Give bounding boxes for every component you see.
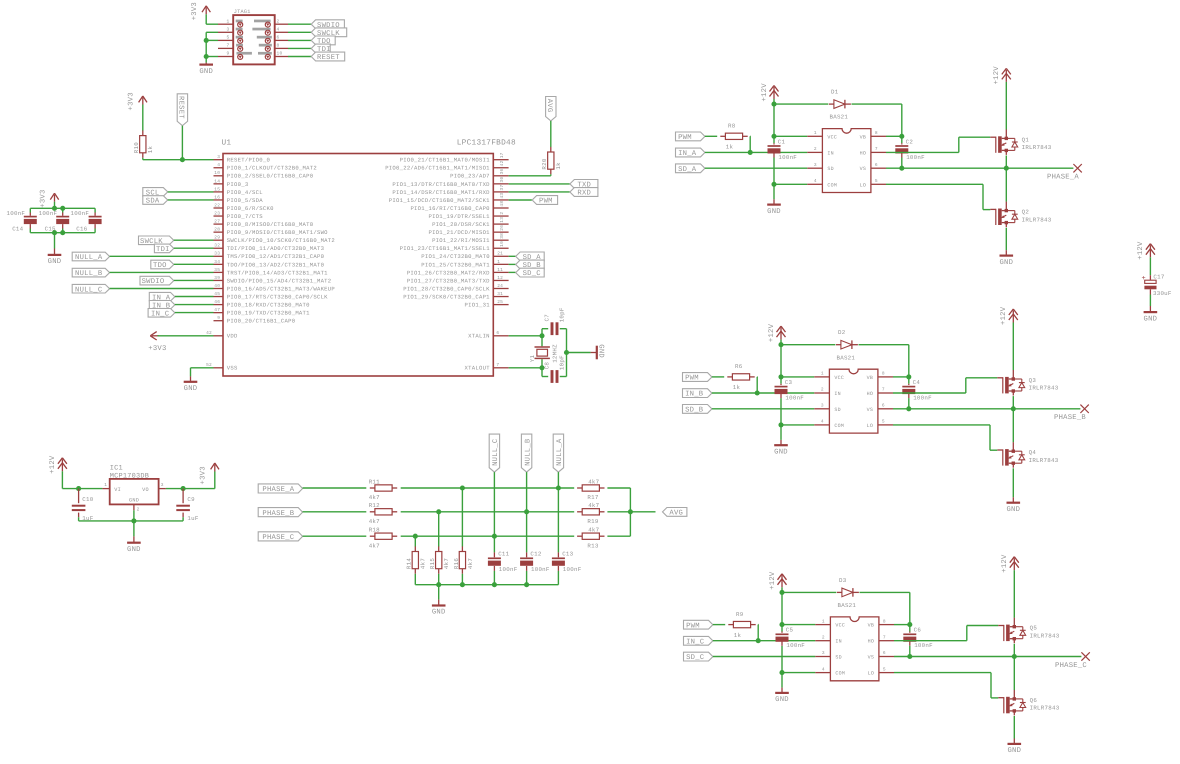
wire C10 bottom (78, 517, 80, 521)
IC1 pin3 stub (159, 488, 166, 490)
wire JTAG flag (288, 39, 311, 41)
wire SD_A (U1) (509, 255, 516, 257)
svg-text:100nF: 100nF (71, 210, 90, 217)
junction VB (906, 374, 911, 379)
wire VB pin (886, 135, 902, 137)
svg-text:PIO1_31: PIO1_31 (465, 302, 491, 309)
wire NULL_B (110, 271, 214, 273)
wire VCC pin (782, 624, 815, 626)
wire R14 top (414, 536, 416, 546)
svg-text:33: 33 (214, 251, 220, 257)
wire JTAG flag (288, 23, 311, 25)
U1 pin stubs (214, 160, 509, 368)
svg-text:IN_C: IN_C (686, 638, 705, 646)
wire R16 top (461, 488, 463, 547)
IC1 pin1 stub (102, 488, 109, 490)
svg-text:PIO1_14/DSR/CT16B0_MAT1/RXD: PIO1_14/DSR/CT16B0_MAT1/RXD (392, 189, 490, 196)
wire VCC vertical (780, 345, 782, 384)
net flag AVG (U1) (545, 97, 556, 121)
net flag IN_B (U1) (149, 301, 175, 311)
junction gnd rail (network) (436, 582, 441, 587)
svg-text:PIO0_5/SDA: PIO0_5/SDA (227, 197, 263, 204)
svg-text:SD_C: SD_C (523, 270, 542, 278)
svg-text:C4: C4 (913, 379, 921, 386)
svg-text:7: 7 (875, 147, 878, 152)
wire SDA (168, 199, 214, 201)
svg-text:46: 46 (214, 299, 220, 305)
svg-text:3: 3 (821, 403, 824, 409)
resistor R19 4k7 (577, 502, 604, 525)
svg-text:GND: GND (127, 546, 141, 554)
svg-text:GND: GND (48, 258, 62, 266)
resistor R8 1k (720, 123, 747, 151)
wire PHASE_A to R11 (303, 487, 367, 489)
wire +12V to C17 (1149, 257, 1151, 275)
wire C8 row (542, 376, 567, 378)
svg-text:R8: R8 (728, 123, 736, 130)
svg-text:D2: D2 (838, 329, 846, 336)
ground (driver PHASE_C) (775, 693, 789, 704)
wire C15 top lead (62, 208, 64, 212)
diode D1 BAS21 (829, 89, 851, 121)
transistor Q5 IRLR7843 (998, 618, 1059, 644)
wire +12V to Q1 drain (1013, 570, 1015, 618)
svg-text:4k7: 4k7 (443, 558, 450, 569)
svg-text:PHASE_B: PHASE_B (262, 510, 294, 518)
capacitor C4 lead (908, 384, 910, 385)
wire C16 top lead (94, 208, 96, 212)
svg-text:+3V3: +3V3 (200, 466, 208, 484)
svg-text:1: 1 (104, 483, 107, 488)
net end marker PHASE_A (1073, 164, 1081, 172)
wire SD_A (705, 167, 807, 169)
junction VB (899, 134, 904, 139)
svg-text:NULL_B: NULL_B (524, 438, 532, 466)
net flag NULL_A (U1) (72, 252, 109, 262)
wire AVG to R20 (550, 121, 552, 147)
wire crystal left vertical (541, 329, 543, 377)
gate driver IC (driver PHASE_C) (830, 617, 879, 681)
svg-text:C11: C11 (498, 551, 509, 558)
net flag IN_C (U1) (148, 309, 175, 319)
JTAG1 pin pads (236, 20, 272, 60)
svg-text:SD_A: SD_A (678, 166, 697, 174)
wire PHASE_B to R12 (303, 511, 367, 513)
wire JTAG flag (288, 31, 311, 33)
wire LO to gate (894, 673, 998, 698)
resistor R20 1k (541, 147, 562, 174)
wire R20 to AD7 pin (509, 174, 551, 176)
driver IC pin stubs (814, 377, 893, 425)
svg-text:LPC1317FBD48: LPC1317FBD48 (457, 139, 516, 148)
wire IN_A (705, 151, 807, 153)
wire NULL_B vertical (526, 472, 528, 552)
svg-text:43: 43 (499, 193, 505, 199)
svg-text:VS: VS (867, 407, 874, 413)
svg-text:100nF: 100nF (531, 566, 550, 573)
svg-text:R9: R9 (736, 611, 744, 618)
svg-text:2: 2 (814, 146, 817, 152)
svg-text:SWDIO/PIO0_15/AD4/CT32B1_MAT2: SWDIO/PIO0_15/AD4/CT32B1_MAT2 (227, 277, 332, 284)
power +3V3 (JTAG) (191, 2, 210, 20)
svg-text:12: 12 (497, 275, 503, 281)
wire PWM (U1) (509, 199, 532, 201)
wire SD_B (U1) (509, 263, 516, 265)
wire C11 bottom (493, 571, 495, 585)
net flag PWM (driver PHASE_B) (683, 373, 712, 383)
wire NULL_C (110, 288, 214, 290)
junction R to IN (748, 150, 753, 155)
svg-text:27: 27 (214, 219, 220, 225)
svg-text:PIO1_28/CT32B0_CAP0/SCLK: PIO1_28/CT32B0_CAP0/SCLK (403, 285, 490, 292)
svg-text:PIO1_19/DTR/SSEL1: PIO1_19/DTR/SSEL1 (428, 213, 490, 220)
svg-text:PIO0_6/R/SCK0: PIO0_6/R/SCK0 (227, 205, 274, 212)
net flag NULL_B (network) (521, 434, 532, 472)
svg-text:COM: COM (827, 182, 837, 188)
svg-text:PIO1_26/CT32B0_MAT2/RXD: PIO1_26/CT32B0_MAT2/RXD (407, 269, 490, 276)
resistor R11 4k7 (369, 478, 398, 501)
svg-text:C12: C12 (530, 551, 541, 558)
wire +12V to Q1 drain (1005, 82, 1007, 130)
capacitor C13 100nF (552, 551, 582, 574)
wire VSS to ground (191, 368, 214, 377)
diode D3 BAS21 (837, 577, 859, 609)
power +3V3 (VDD) (148, 332, 166, 353)
wire VCC vertical (773, 104, 775, 143)
svg-text:BAS21: BAS21 (837, 354, 856, 361)
resistor R10 1k (133, 131, 154, 158)
wire R10 to RESET pin (143, 158, 214, 160)
svg-text:PWM: PWM (685, 375, 699, 383)
svg-text:GND: GND (129, 498, 139, 504)
wire +3V3 to JTAG pin 1 (206, 14, 218, 24)
svg-text:Q6: Q6 (1030, 697, 1038, 704)
svg-text:6: 6 (277, 35, 280, 41)
capacitor C2 100nF (895, 138, 925, 161)
svg-text:GND: GND (1144, 315, 1158, 323)
svg-text:9: 9 (217, 315, 220, 321)
ground (driver PHASE_A fets) (999, 256, 1013, 267)
svg-text:+12V: +12V (1001, 554, 1009, 573)
svg-text:PIO0_20/CT16B1_CAP0: PIO0_20/CT16B1_CAP0 (227, 318, 296, 325)
svg-text:LO: LO (868, 671, 875, 677)
svg-text:PIO0_18/RXD/CT32B0_MAT0: PIO0_18/RXD/CT32B0_MAT0 (227, 302, 310, 309)
gnd lead (driver) (773, 199, 775, 204)
svg-text:7: 7 (883, 635, 886, 640)
net flag SWDIO (JTAG) (311, 20, 344, 30)
svg-text:4k7: 4k7 (588, 478, 599, 485)
svg-text:40: 40 (214, 283, 220, 289)
wire C15 bottom lead (62, 229, 64, 233)
junction COM (779, 670, 784, 675)
wire Q1 source to phase (1012, 396, 1014, 409)
svg-text:TDO: TDO (153, 262, 167, 270)
transistor Q3 IRLR7843 (997, 370, 1058, 396)
svg-text:NULL_C: NULL_C (75, 286, 103, 294)
wire +12V rail (781, 340, 835, 345)
svg-text:10pF: 10pF (559, 355, 566, 370)
svg-text:GND: GND (1006, 506, 1020, 514)
svg-text:GND: GND (199, 68, 213, 76)
svg-text:TDO/PIO0_13/AD2/CT32B1_MAT0: TDO/PIO0_13/AD2/CT32B1_MAT0 (227, 261, 325, 268)
svg-text:PIO0_4/SCL: PIO0_4/SCL (227, 189, 263, 196)
junction VB (907, 622, 912, 627)
net flag TDI (U1) (154, 244, 173, 254)
wire VS / PHASE_A (886, 167, 1073, 169)
svg-text:PWM: PWM (678, 134, 692, 142)
svg-text:SD: SD (834, 407, 841, 413)
net flag NULL_B (U1) (72, 268, 109, 278)
svg-text:11: 11 (497, 268, 503, 273)
capacitor C1 100nF (768, 138, 798, 161)
ground (JTAG) (199, 65, 213, 76)
net flag TDO (U1) (151, 260, 174, 270)
C9 labels (187, 496, 198, 522)
capacitor C5 lead (781, 632, 783, 633)
wire gnd stem (network) (438, 585, 440, 600)
svg-text:1k: 1k (555, 162, 562, 170)
junction crystal gnd (564, 350, 569, 355)
svg-text:Q2: Q2 (1022, 209, 1030, 216)
svg-text:2: 2 (277, 18, 280, 24)
wire phase to Q2 drain (1005, 168, 1007, 202)
wire C12 bottom (526, 571, 528, 585)
svg-text:6: 6 (883, 650, 886, 656)
wire C right bottom (908, 398, 910, 409)
svg-text:5: 5 (883, 667, 886, 672)
svg-text:4k7: 4k7 (420, 558, 427, 569)
crystal Y1 12MHZ (529, 344, 558, 363)
svg-text:45: 45 (214, 292, 220, 297)
svg-text:C16: C16 (76, 226, 87, 233)
svg-text:29: 29 (214, 235, 220, 241)
capacitor C6 100nF (903, 627, 933, 650)
capacitor C9 1uF (176, 506, 190, 510)
driver IC pin stubs (807, 136, 886, 184)
C14-C16 labels (7, 210, 90, 233)
svg-text:TRST/PIO0_14/AD3/CT32B1_MAT1: TRST/PIO0_14/AD3/CT32B1_MAT1 (227, 269, 328, 276)
svg-text:GND: GND (999, 259, 1013, 267)
svg-text:RXD: RXD (577, 190, 591, 198)
resistor R14 4k7 (406, 546, 427, 573)
wire crystal right vertical (566, 329, 568, 377)
resistor R17 4k7 (577, 478, 604, 501)
svg-text:10: 10 (277, 51, 283, 57)
svg-text:C2: C2 (906, 138, 914, 145)
svg-text:SWCLK/PIO0_10/SCK0/CT16B0_MAT2: SWCLK/PIO0_10/SCK0/CT16B0_MAT2 (227, 237, 335, 244)
svg-text:+12V: +12V (1000, 306, 1008, 325)
power +12V (driver PHASE_A right) (993, 66, 1011, 85)
junction VCC (778, 374, 783, 379)
svg-text:330uF: 330uF (1153, 290, 1172, 297)
wire COM pin (774, 183, 807, 185)
net flag SD_B (U1) (516, 260, 545, 270)
svg-text:1: 1 (822, 619, 825, 624)
svg-text:MCP1703DB: MCP1703DB (110, 473, 149, 481)
wire C right bottom (901, 158, 903, 169)
net flag SD_A (U1) (516, 252, 545, 262)
svg-text:25: 25 (497, 299, 503, 305)
svg-text:8: 8 (875, 130, 878, 136)
svg-text:R12: R12 (369, 502, 380, 509)
C10 labels (82, 496, 93, 522)
transistor Q1 IRLR7843 (990, 129, 1051, 155)
transistor Q4 IRLR7843 (997, 442, 1058, 468)
svg-text:LO: LO (867, 423, 874, 429)
svg-text:PIO1_21/DCD/MISO1: PIO1_21/DCD/MISO1 (428, 229, 490, 236)
svg-text:COM: COM (834, 423, 844, 429)
svg-text:BAS21: BAS21 (838, 602, 857, 609)
power +12V (driver PHASE_B right) (1000, 306, 1018, 325)
svg-text:IRLR7843: IRLR7843 (1022, 216, 1052, 223)
svg-text:GND: GND (1007, 747, 1021, 755)
wire row C to join (607, 512, 630, 536)
wire row A to join (607, 488, 630, 512)
wire IN_A (U1) (175, 296, 214, 298)
svg-text:+3V3: +3V3 (39, 189, 47, 207)
svg-text:100nF: 100nF (913, 394, 932, 401)
junction IC1 gnd (131, 518, 136, 523)
svg-text:PWM: PWM (539, 198, 553, 206)
wire R15 top (438, 512, 440, 547)
svg-text:VDD: VDD (227, 333, 238, 340)
svg-text:100nF: 100nF (499, 566, 518, 573)
svg-text:100nF: 100nF (563, 566, 582, 573)
svg-text:28: 28 (214, 227, 220, 233)
net flag TDI (JTAG) (311, 44, 331, 54)
junction VS mosfet (1012, 654, 1017, 659)
wire SWDIO (174, 279, 214, 281)
svg-text:22: 22 (214, 202, 220, 208)
svg-text:+3V3: +3V3 (148, 345, 166, 353)
junction row C / R14 (413, 534, 418, 539)
svg-text:R14: R14 (406, 558, 413, 569)
svg-text:100nF: 100nF (778, 154, 797, 161)
svg-text:PHASE_A: PHASE_A (262, 486, 294, 494)
junction R to IN (756, 638, 761, 643)
net flag TDO (JTAG) (311, 36, 335, 46)
net flag RESET (U1) (177, 94, 188, 126)
junction COM (778, 422, 783, 427)
wire IN_B (U1) (175, 304, 214, 306)
net flag PWM (driver PHASE_A) (676, 132, 705, 142)
svg-text:R19: R19 (587, 518, 598, 525)
svg-text:VI: VI (114, 487, 121, 493)
svg-text:+12V: +12V (1137, 241, 1145, 260)
wire VS / PHASE_C (894, 656, 1081, 658)
svg-text:100nF: 100nF (786, 642, 805, 649)
wire VB pin (894, 624, 910, 626)
svg-text:D3: D3 (839, 577, 847, 584)
ground (C17) (1144, 312, 1158, 323)
svg-text:4k7: 4k7 (467, 558, 474, 569)
net flag RESET (JTAG) (311, 52, 345, 62)
transistor Q6 IRLR7843 (998, 690, 1059, 716)
gnd lead (low fet) (1005, 250, 1007, 255)
net flag SD_C (U1) (516, 268, 545, 278)
ground (driver PHASE_B) (774, 445, 788, 456)
svg-text:PIO0_9/MOSI0/CT16B0_MAT1/SWO: PIO0_9/MOSI0/CT16B0_MAT1/SWO (227, 229, 328, 236)
wire row A (401, 487, 575, 489)
svg-text:14: 14 (214, 179, 220, 184)
gnd lead (driver) (780, 440, 782, 445)
wire C9 bottom (182, 517, 184, 521)
net flag PHASE_C (258, 532, 302, 542)
svg-text:100nF: 100nF (7, 210, 26, 217)
junction +12V rail (778, 342, 783, 347)
svg-text:4k7: 4k7 (588, 502, 599, 509)
svg-text:PIO0_21/CT16B1_MAT0/MOSI1: PIO0_21/CT16B1_MAT0/MOSI1 (400, 157, 491, 164)
svg-text:PHASE_C: PHASE_C (262, 534, 294, 542)
wire VDD (158, 335, 214, 337)
svg-text:+12V: +12V (49, 455, 57, 474)
svg-text:R15: R15 (429, 558, 436, 569)
junction C9 top (181, 486, 186, 491)
svg-text:IN: IN (835, 639, 842, 645)
junction row A / NULL_A (556, 485, 561, 490)
gate driver IC (driver PHASE_B) (829, 369, 878, 433)
svg-text:IC1: IC1 (110, 465, 123, 473)
svg-text:PIO1_13/DTR/CT16B0_MAT0/TXD: PIO1_13/DTR/CT16B0_MAT0/TXD (392, 181, 490, 188)
driver IC pin numbers (821, 371, 885, 425)
capacitor C4 100nF (902, 379, 932, 402)
svg-text:IN: IN (827, 150, 834, 156)
capacitor C6 lead (909, 632, 911, 633)
svg-text:Q4: Q4 (1029, 449, 1037, 456)
svg-text:PIO1_20/DSR/SCK1: PIO1_20/DSR/SCK1 (432, 221, 490, 228)
junction row C / NULL_C (492, 534, 497, 539)
power +12V (driver PHASE_C left) (769, 571, 787, 590)
svg-text:6: 6 (496, 330, 499, 336)
wire IN_B (712, 392, 814, 394)
wire gnd stem (C14-C16) (54, 233, 56, 249)
svg-text:PHASE_C: PHASE_C (1055, 662, 1087, 670)
svg-text:C3: C3 (785, 379, 793, 386)
junction +12V rail (779, 590, 784, 595)
svg-text:42: 42 (499, 160, 505, 166)
net flag PWM (U1) (532, 196, 557, 206)
wire rail to VB vertical (860, 592, 910, 631)
svg-text:Q1: Q1 (1022, 136, 1030, 143)
gnd lead (driver) (781, 688, 783, 693)
svg-text:35: 35 (214, 267, 220, 273)
svg-text:TMS/PIO0_12/AD1/CT32B1_CAP0: TMS/PIO0_12/AD1/CT32B1_CAP0 (227, 253, 325, 260)
svg-text:R6: R6 (735, 363, 743, 370)
driver IC pin numbers (814, 130, 878, 184)
wire rail to VB vertical (859, 345, 909, 384)
svg-text:34: 34 (214, 259, 220, 265)
resistor R12 4k7 (369, 502, 398, 525)
power +12V (driver PHASE_C right) (1001, 554, 1019, 573)
svg-text:VCC: VCC (834, 375, 844, 381)
junction XTALIN (539, 333, 544, 338)
svg-text:NULL_A: NULL_A (556, 438, 564, 466)
ground (IC1) (127, 543, 141, 554)
ground (driver PHASE_C fets) (1007, 744, 1021, 755)
svg-text:R11: R11 (369, 478, 380, 485)
svg-text:R17: R17 (587, 494, 598, 501)
svg-text:3: 3 (161, 482, 164, 488)
driver IC pin numbers (822, 618, 886, 672)
svg-text:NULL_B: NULL_B (75, 270, 103, 278)
svg-text:PIO0_16/AD5/CT32B1_MAT3/WAKEUP: PIO0_16/AD5/CT32B1_MAT3/WAKEUP (227, 285, 336, 292)
svg-text:HO: HO (868, 639, 875, 645)
net flag NULL_C (U1) (72, 284, 109, 294)
wire VCC pin (781, 376, 814, 378)
wire C14 top lead (29, 208, 31, 212)
svg-text:IN_B: IN_B (685, 391, 704, 399)
svg-text:VS: VS (868, 655, 875, 661)
